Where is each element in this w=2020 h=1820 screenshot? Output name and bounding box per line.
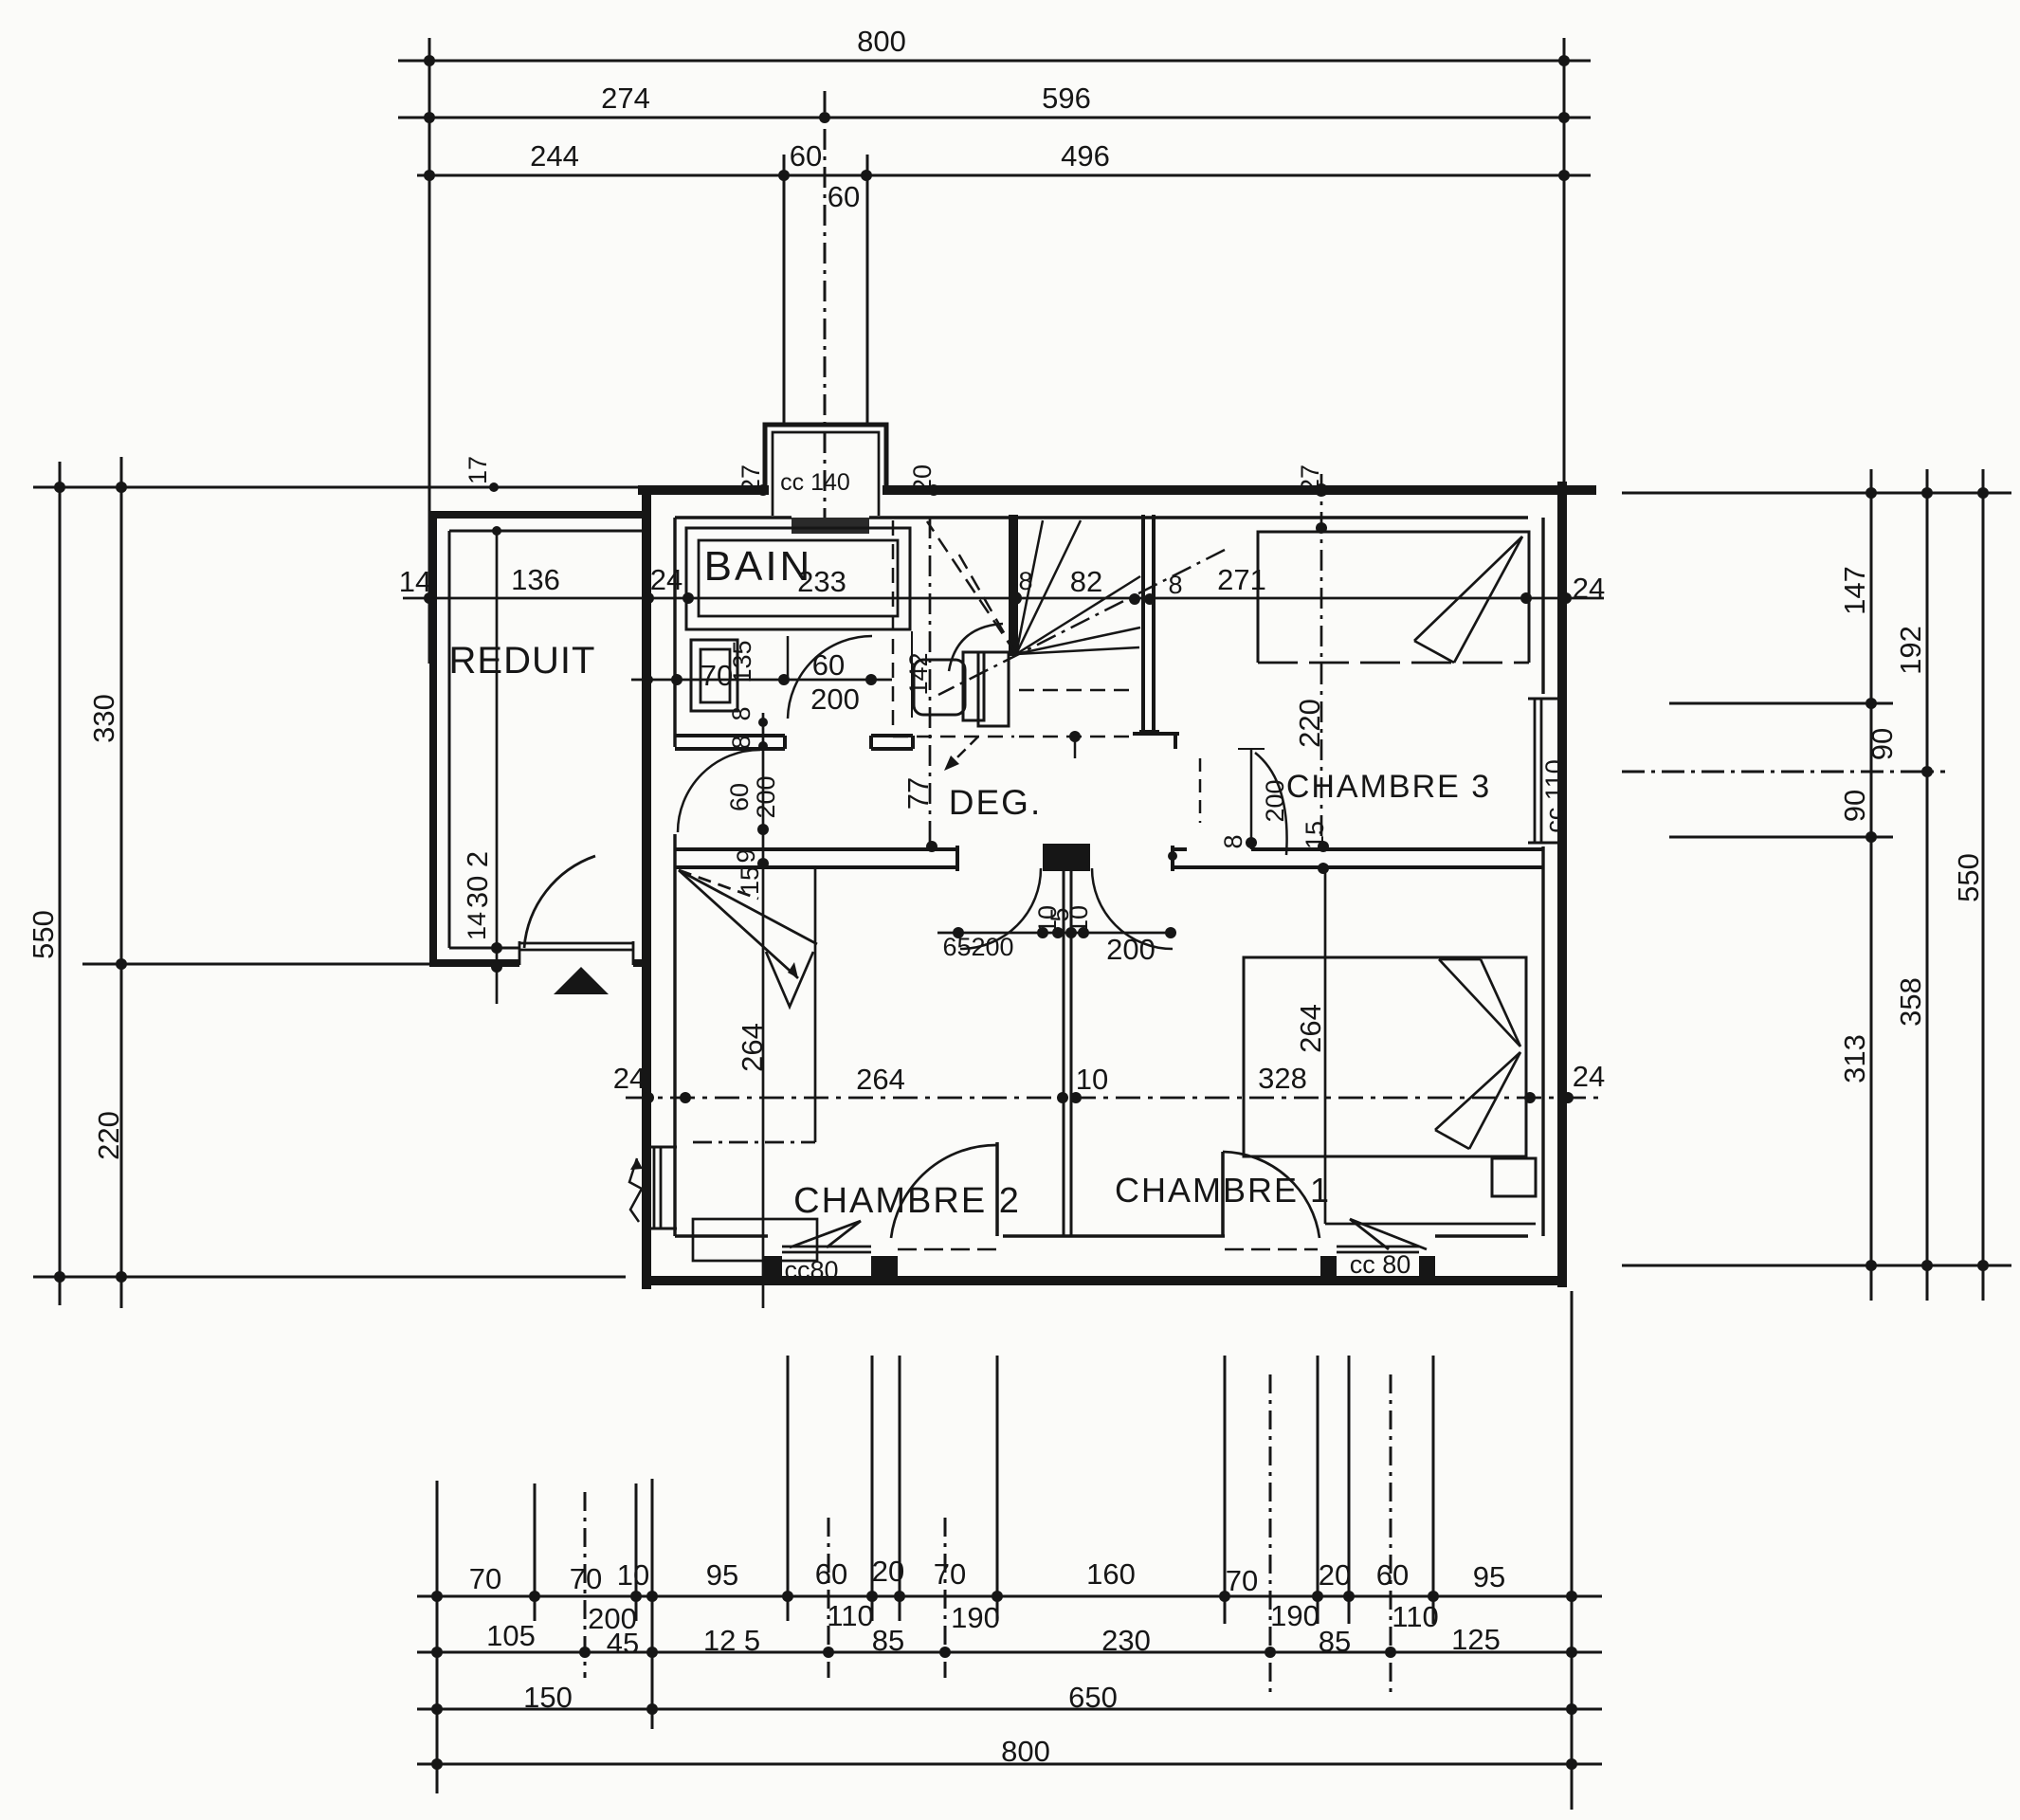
stair newel rect	[978, 652, 1009, 726]
svg-text:85: 85	[1319, 1625, 1351, 1658]
svg-text:800: 800	[1001, 1735, 1050, 1768]
extension x1052	[996, 1356, 999, 1621]
stair radial dashed 1	[927, 521, 1016, 654]
segA end cap	[955, 846, 959, 871]
svg-text:95: 95	[706, 1558, 738, 1592]
svg-text:136: 136	[511, 563, 560, 596]
extension x688	[651, 1479, 654, 1729]
bain south wall seg right line2	[871, 747, 913, 751]
GROUP: main plan walls	[638, 482, 1596, 1289]
svg-text:192: 192	[1894, 626, 1927, 675]
terrace door ch1 threshold	[1225, 1248, 1318, 1251]
centerline x617	[584, 1492, 587, 1678]
dim line 244/60/496	[417, 174, 1591, 177]
svg-text:330: 330	[87, 694, 120, 743]
GROUP: right dimension block	[1622, 469, 2011, 1301]
svg-text:230: 230	[1101, 1624, 1151, 1657]
svg-text:200: 200	[1106, 933, 1156, 966]
svg-text:110: 110	[827, 1599, 873, 1632]
left wall door swing arc	[678, 750, 760, 832]
partition ch1/ch2 line2	[1070, 871, 1073, 1236]
tub right connector	[911, 736, 915, 749]
left wall window glazing	[653, 1147, 656, 1228]
svg-text:147: 147	[1838, 566, 1871, 615]
svg-text:328: 328	[1258, 1062, 1307, 1095]
reduit door jambs	[519, 941, 521, 965]
stair walk arc	[949, 624, 1003, 671]
dim line y514	[33, 486, 654, 489]
window cc110 glazing	[1534, 699, 1537, 843]
extension line chimney x827	[783, 155, 786, 426]
partition ch1/ch2 line1	[1063, 871, 1065, 1236]
reduit door threshold lines	[519, 942, 633, 945]
svg-text:27: 27	[1296, 464, 1324, 493]
bed chambre3	[1258, 532, 1529, 663]
chambre3 west wall line2	[1152, 515, 1156, 732]
stair landing dashed y728	[1019, 689, 1137, 692]
dashdot x981	[929, 518, 932, 846]
exterior wall right outer	[1557, 482, 1567, 1287]
washbasin outer	[691, 640, 737, 711]
svg-text:550: 550	[1952, 853, 1985, 902]
chambre3 door centerline dashes	[1199, 758, 1202, 823]
svg-text:135: 135	[728, 640, 756, 682]
ch2 corner fan line2	[679, 870, 798, 978]
svg-text:DEG.: DEG.	[949, 783, 1042, 822]
terrace door ch1 swing arc	[1223, 1152, 1319, 1238]
pier rect filled	[1043, 844, 1090, 871]
extension line chimney x915	[866, 155, 869, 426]
extension line x2033	[1926, 469, 1929, 1301]
bathtub inner	[699, 540, 898, 616]
ch2 low cupboard rect	[693, 1219, 817, 1261]
svg-text:65200: 65200	[942, 933, 1013, 961]
dim line y520	[1622, 492, 2011, 495]
dim line y1017	[82, 963, 436, 966]
chambre3 door leaf	[1250, 749, 1253, 849]
dim line y1335	[1622, 1265, 2011, 1267]
terrace door ch2 swing arc	[891, 1145, 997, 1238]
svg-text:24: 24	[1573, 1060, 1605, 1093]
entrance arrow black triangle	[554, 967, 609, 994]
extension x1390	[1317, 1356, 1319, 1624]
exterior wall left outer	[642, 485, 651, 1289]
stairwell dashed edge left	[892, 520, 895, 737]
window cc80 ch1 caps	[1320, 1256, 1337, 1280]
svg-text:8: 8	[1219, 834, 1247, 848]
dim line row4 y1861	[417, 1763, 1602, 1766]
extension x564	[534, 1483, 537, 1621]
stair radial solid 5	[1016, 647, 1139, 654]
svg-text:60: 60	[828, 180, 860, 213]
svg-text:CHAMBRE 3: CHAMBRE 3	[1286, 769, 1491, 805]
bain south wall seg left line1	[675, 734, 785, 737]
centerline x1340	[1269, 1374, 1272, 1694]
wardrobe dashdot bottom	[693, 1141, 815, 1144]
dots top dims	[424, 55, 1570, 181]
reduit wall top inner	[449, 530, 643, 533]
interior face top wall right	[869, 516, 1528, 519]
svg-text:24: 24	[1573, 572, 1605, 605]
svg-text:70: 70	[1226, 1564, 1258, 1597]
bain door swing arc	[788, 636, 872, 719]
svg-text:cc 80: cc 80	[1350, 1250, 1411, 1279]
interior face top wall left	[675, 516, 792, 519]
nightstand ch1	[1492, 1158, 1536, 1196]
south wall segC line1	[1251, 847, 1543, 851]
terrace door ch1 leaf	[1221, 1152, 1225, 1236]
extension x1292	[1224, 1356, 1227, 1624]
svg-text:200: 200	[1261, 779, 1289, 822]
washbasin inner	[701, 649, 730, 702]
window cc110 cap bottom	[1528, 842, 1566, 845]
svg-text:17: 17	[464, 456, 492, 484]
dim line row3 y1803	[417, 1708, 1602, 1711]
GROUP: plan dimension lines	[403, 474, 1604, 1308]
dim vertical x524 reduit	[496, 531, 499, 1004]
dim line y631	[403, 597, 1604, 600]
svg-text:70: 70	[934, 1557, 966, 1591]
svg-text:10: 10	[1076, 1063, 1108, 1096]
reduit wall top outer	[429, 511, 645, 519]
svg-text:20: 20	[872, 1555, 904, 1588]
svg-text:30 2: 30 2	[461, 851, 494, 908]
svg-text:14: 14	[463, 912, 491, 940]
south-of-DEG wall segA line2	[675, 865, 957, 869]
GROUP: top dimension block	[398, 38, 1591, 664]
centerline chimney x870 dash-dot	[824, 91, 827, 531]
GROUP: beds and furniture	[679, 532, 1536, 1261]
GROUP: plan dim labels rotated	[461, 456, 1329, 1072]
GROUP: reduit annex	[429, 511, 651, 967]
svg-text:60: 60	[725, 783, 754, 811]
svg-text:60: 60	[1376, 1558, 1409, 1592]
lightning arrow electricity	[629, 1158, 643, 1222]
south-of-DEG wall segA line1	[675, 847, 957, 851]
chimney inner box	[773, 432, 879, 516]
svg-text:24: 24	[650, 563, 682, 596]
extension x920	[871, 1356, 874, 1621]
closet front line ch1	[1325, 1223, 1536, 1226]
chimney outer box	[765, 425, 886, 487]
terrace door ch2 leaf	[995, 1142, 999, 1236]
svg-text:264: 264	[1294, 1004, 1327, 1053]
GROUP: room labels	[449, 469, 1569, 1284]
dim line 142 vertical	[911, 631, 913, 718]
bain south wall seg left line2	[675, 747, 785, 751]
extension x805 upper	[762, 713, 765, 1308]
ch2 corner fan dashed	[679, 870, 758, 899]
left wall window cap bottom	[645, 1228, 677, 1230]
svg-text:264: 264	[736, 1023, 769, 1072]
dim line y725 bain door	[631, 679, 892, 682]
dim cluster y984	[937, 932, 1171, 935]
wardrobe ch2 zigzag	[766, 952, 813, 1007]
svg-text:105: 105	[486, 1619, 536, 1652]
GROUP: left dimension block	[33, 457, 654, 1308]
GROUP: chimney	[765, 425, 886, 534]
extension line x1974	[1870, 469, 1873, 1301]
labels top dims	[530, 25, 1110, 213]
svg-text:90: 90	[1838, 790, 1871, 822]
svg-text:10: 10	[617, 1558, 649, 1592]
svg-text:77: 77	[901, 777, 935, 810]
stair radial dashed 2	[957, 552, 1016, 654]
svg-text:20: 20	[1319, 1558, 1351, 1592]
dim line y1158 dash-dot	[626, 1097, 1604, 1100]
svg-text:8: 8	[1168, 571, 1182, 599]
GROUP: windows	[645, 699, 1566, 1280]
bed chambre1	[1244, 957, 1526, 1156]
bed ch1 pillow top	[1439, 959, 1520, 1046]
window cc110 cap top	[1528, 698, 1566, 701]
interior face bottom wall seg4	[1435, 1234, 1528, 1237]
extension x461	[436, 1481, 439, 1793]
svg-text:12 5: 12 5	[703, 1624, 760, 1657]
extension x831	[787, 1356, 790, 1621]
extension line x63	[59, 462, 62, 1305]
interior face right wall lower	[1541, 846, 1544, 1236]
centerline x1467	[1390, 1374, 1392, 1694]
svg-text:10: 10	[1065, 905, 1093, 934]
svg-text:cc 140: cc 140	[780, 469, 850, 496]
centerline x997	[944, 1518, 947, 1678]
svg-text:142: 142	[904, 652, 933, 695]
bed ch1 pillow bottom	[1435, 1052, 1520, 1130]
svg-text:45: 45	[607, 1627, 639, 1660]
stair radial solid 1	[1016, 520, 1043, 654]
left wall window cap top	[645, 1146, 677, 1149]
bain south wall seg right line1	[871, 734, 913, 737]
svg-text:REDUIT: REDUIT	[449, 640, 596, 682]
GROUP: interior doors	[678, 636, 1287, 949]
GROUP: stairs	[893, 520, 1225, 771]
reduit wall bottom outer seg left	[429, 959, 519, 967]
dim line y1347	[33, 1276, 626, 1279]
window cc80 ch2 glazing	[782, 1246, 871, 1248]
dim line 274/596	[398, 117, 1591, 119]
wardrobe ch2 side line	[814, 868, 817, 1142]
bain door leaf	[787, 636, 790, 680]
reduit wall left inner	[448, 531, 451, 948]
centerline y814 dash-dot	[1622, 771, 1945, 773]
svg-text:220: 220	[1293, 699, 1326, 748]
svg-text:200: 200	[810, 682, 860, 716]
svg-text:550: 550	[27, 910, 60, 959]
ch1 window fan	[1350, 1219, 1427, 1249]
extension x1512	[1432, 1356, 1435, 1624]
extension x1398 lower	[1324, 871, 1327, 1224]
svg-text:CHAMBRE 2: CHAMBRE 2	[793, 1181, 1021, 1221]
svg-text:cc 110: cc 110	[1540, 759, 1569, 833]
centerline x874	[828, 1518, 830, 1678]
stair diagonal dash-dot	[938, 550, 1225, 695]
bain south wall cap right	[869, 736, 873, 749]
stair radial solid 4	[1016, 628, 1140, 654]
svg-text:110: 110	[1392, 1600, 1438, 1633]
svg-text:8: 8	[727, 706, 755, 720]
ch2 corner fan arrowhead	[788, 962, 798, 978]
window cc80 ch1 glazing	[1337, 1246, 1419, 1248]
svg-text:82: 82	[1070, 565, 1102, 598]
svg-text:8: 8	[727, 735, 755, 749]
stairwell dashed edge bottom	[893, 736, 1014, 738]
extension x949	[899, 1356, 901, 1621]
svg-text:271: 271	[1217, 563, 1266, 596]
terrace door ch2 threshold	[898, 1248, 1001, 1251]
stair landing dashed y777	[1019, 736, 1137, 738]
dim tick y742	[1669, 702, 1893, 705]
interior face bottom wall seg1	[675, 1234, 768, 1237]
chimney flue dark	[792, 518, 869, 534]
svg-text:8: 8	[1018, 567, 1032, 595]
svg-text:14: 14	[399, 565, 431, 598]
interior face left wall upper	[673, 518, 676, 747]
chambre3 west wall line1	[1141, 515, 1145, 732]
extension line right x1650	[1563, 38, 1566, 491]
ch2 window fan	[790, 1221, 861, 1247]
svg-text:60: 60	[812, 648, 845, 682]
GROUP: bottom dimension block	[417, 1291, 1602, 1810]
dim tick y883	[1669, 836, 1893, 839]
svg-text:70: 70	[570, 1562, 602, 1595]
GROUP: bain fixtures	[686, 528, 910, 711]
interior face right wall upper	[1541, 518, 1544, 694]
dim line row1 y1684	[417, 1595, 1602, 1598]
GROUP: interior partitions	[675, 515, 1543, 1236]
svg-text:24: 24	[613, 1062, 646, 1095]
svg-text:15: 15	[1301, 821, 1329, 849]
svg-text:190: 190	[1270, 1599, 1319, 1632]
svg-text:85: 85	[872, 1624, 904, 1657]
dots plan	[424, 483, 1574, 1103]
svg-text:60: 60	[790, 139, 822, 173]
chambre3 door swing arc	[1255, 753, 1287, 855]
extension line x128	[120, 457, 123, 1308]
window cc80 ch2 pier caps	[764, 1256, 782, 1280]
extension line left x453	[428, 38, 431, 664]
stair dashed arrow	[948, 737, 978, 767]
svg-text:274: 274	[601, 82, 650, 115]
wc tank	[963, 652, 984, 720]
svg-text:9: 9	[732, 848, 760, 863]
svg-text:150: 150	[523, 1681, 573, 1714]
svg-text:20: 20	[908, 464, 937, 493]
extension x1423	[1348, 1356, 1351, 1624]
svg-text:233: 233	[797, 565, 846, 598]
chambre2 door swing arc	[960, 868, 1041, 949]
svg-text:160: 160	[1086, 1557, 1136, 1591]
extension x671	[635, 1483, 638, 1621]
wc bowl	[914, 660, 965, 715]
south wall segBC line2 continuous	[1173, 865, 1543, 869]
chambre1 door swing arc	[1092, 868, 1173, 949]
svg-text:70: 70	[469, 1562, 501, 1595]
bathtub outer	[686, 528, 910, 629]
svg-text:358: 358	[1894, 977, 1927, 1027]
svg-text:244: 244	[530, 139, 579, 173]
ch3 west wall bottom hook	[1133, 732, 1179, 736]
reduit entrance door swing arc	[524, 856, 595, 948]
dim line 800	[398, 60, 1591, 63]
svg-text:90: 90	[1865, 728, 1899, 760]
ch2 corner fan line1	[679, 870, 817, 944]
chambre3 west wall cap	[1139, 730, 1159, 734]
extension x1658	[1571, 1291, 1574, 1810]
stair radial solid 2	[1016, 520, 1081, 654]
exterior wall bottom outer	[643, 1276, 1566, 1285]
interior face left wall lower	[673, 834, 676, 1236]
dim line row2 y1743	[417, 1651, 1602, 1654]
svg-text:220: 220	[92, 1111, 125, 1160]
dashdot x1394	[1320, 474, 1323, 846]
svg-text:800: 800	[857, 25, 906, 58]
svg-text:200: 200	[752, 775, 780, 818]
bed ch3 pillow lines	[1414, 537, 1522, 641]
exterior wall top outer left of chimney	[638, 485, 769, 495]
svg-text:596: 596	[1042, 82, 1091, 115]
south wall segB line1 stub	[1173, 847, 1187, 851]
svg-text:125: 125	[1451, 1623, 1501, 1656]
reduit wall left outer	[429, 511, 437, 967]
svg-text:650: 650	[1068, 1681, 1118, 1714]
exterior wall top outer right of chimney	[883, 485, 1596, 495]
svg-text:cc80: cc80	[784, 1256, 838, 1284]
svg-text:496: 496	[1061, 139, 1110, 173]
tick below landing	[1074, 737, 1077, 758]
bain south wall cap left	[783, 736, 787, 749]
segB start cap	[1171, 846, 1174, 871]
svg-text:60: 60	[815, 1557, 847, 1591]
svg-text:CHAMBRE 1: CHAMBRE 1	[1115, 1171, 1331, 1210]
interior face bottom wall seg3	[1003, 1234, 1225, 1237]
svg-text:264: 264	[856, 1063, 905, 1096]
GROUP: plan dim labels horizontal	[399, 563, 1307, 1096]
reduit wall bottom outer seg right	[633, 959, 651, 967]
svg-text:313: 313	[1838, 1034, 1871, 1083]
svg-text:190: 190	[951, 1601, 1000, 1634]
extension line x2092	[1982, 469, 1985, 1301]
svg-text:15: 15	[736, 866, 764, 895]
reduit wall bottom inner	[449, 947, 519, 950]
svg-text:27: 27	[737, 464, 765, 493]
stair wall stub thick	[1009, 515, 1018, 656]
stair radial solid 3	[1016, 576, 1140, 654]
svg-text:95: 95	[1473, 1560, 1505, 1593]
